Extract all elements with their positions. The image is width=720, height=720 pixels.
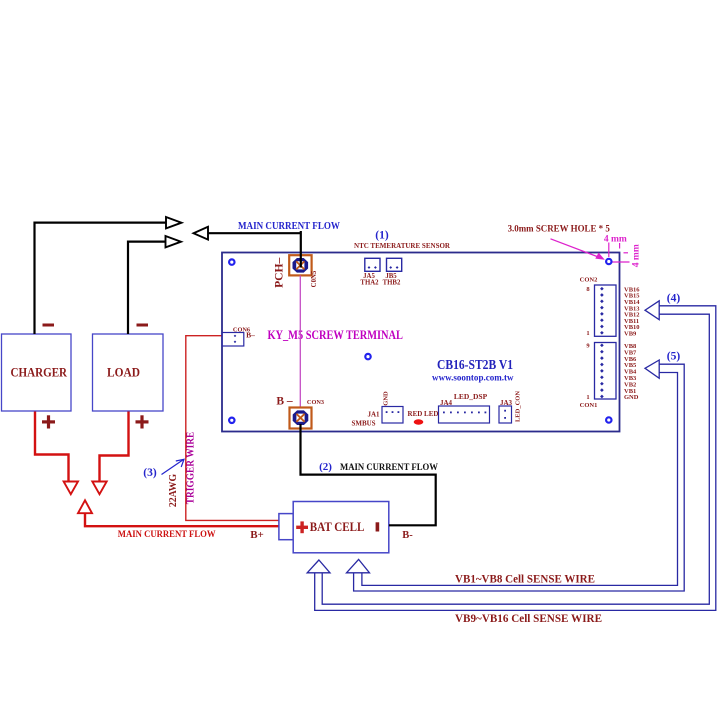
screw hole bottom-right — [606, 417, 611, 422]
connector JB5 — [387, 258, 402, 271]
svg-text:(4): (4) — [667, 293, 681, 305]
svg-text:GND: GND — [624, 394, 639, 401]
svg-text:KY_M5 SCREW TERMINAL: KY_M5 SCREW TERMINAL — [267, 327, 403, 342]
wire VB9-VB16 sense bus — [315, 306, 716, 611]
arrow load current into junction — [166, 236, 182, 247]
svg-text:22AWG: 22AWG — [168, 474, 179, 507]
svg-text:1: 1 — [586, 394, 589, 401]
wire junction to PCH- terminal — [208, 232, 301, 234]
connector JA4 — [439, 406, 490, 423]
connector JA1 — [382, 407, 403, 424]
connector JA3 — [499, 406, 512, 423]
svg-text:MAIN CURRENT FLOW: MAIN CURRENT FLOW — [340, 462, 439, 472]
svg-text:CON2: CON2 — [580, 277, 598, 284]
charger plus label — [42, 415, 55, 428]
charger minus label — [43, 324, 55, 327]
screw terminal CON5 — [289, 255, 311, 275]
svg-text:LED_CON: LED_CON — [515, 391, 522, 422]
svg-text:RED LED: RED LED — [408, 410, 439, 418]
arrow charger current down — [64, 482, 78, 495]
svg-text:C0N5: C0N5 — [311, 270, 318, 287]
wire charger positive — [35, 412, 69, 481]
charger box — [2, 334, 72, 411]
svg-text:BAT CELL: BAT CELL — [310, 520, 365, 534]
red LED — [414, 419, 424, 424]
load minus label — [137, 324, 149, 327]
connector CON6 — [222, 333, 244, 347]
svg-text:www.soontop.com.tw: www.soontop.com.tw — [432, 373, 514, 384]
svg-text:CHARGER: CHARGER — [11, 366, 68, 380]
svg-text:(1): (1) — [375, 230, 389, 242]
svg-text:JA3: JA3 — [500, 399, 513, 407]
svg-text:GND: GND — [383, 391, 390, 406]
svg-text:SMBUS: SMBUS — [351, 420, 375, 428]
screw hole middle — [365, 354, 370, 359]
svg-text:THA2: THA2 — [360, 279, 379, 286]
arrow cell sense left (to bat cell) — [307, 560, 330, 573]
svg-text:NTC TEMERATURE SENSOR: NTC TEMERATURE SENSOR — [354, 241, 451, 250]
arrow 4 — [645, 301, 659, 320]
wire battery negative to CON3 — [301, 424, 436, 525]
svg-text:B–: B– — [246, 331, 255, 340]
svg-text:3.0mm SCREW HOLE * 5: 3.0mm SCREW HOLE * 5 — [508, 224, 611, 234]
wire PCH- to B- terminal (violet) — [299, 276, 301, 408]
screw hole top-left — [229, 259, 234, 264]
dimension 4mm horizontal — [609, 243, 620, 258]
svg-text:4 mm: 4 mm — [632, 244, 642, 267]
svg-text:1: 1 — [586, 330, 589, 337]
arrow battery current up — [78, 500, 92, 513]
svg-text:MAIN CURRENT FLOW: MAIN CURRENT FLOW — [238, 221, 340, 232]
wire VB1-VB8 sense bus — [354, 364, 685, 591]
svg-text:CB16-ST2B V1: CB16-ST2B V1 — [437, 357, 513, 372]
dimension 4mm vertical — [613, 253, 630, 262]
load box — [93, 334, 164, 411]
svg-text:MAIN CURRENT FLOW: MAIN CURRENT FLOW — [118, 529, 217, 539]
svg-text:4 mm: 4 mm — [604, 235, 627, 245]
trigger wire — [186, 336, 279, 521]
svg-text:VB1~VB8 Cell SENSE WIRE: VB1~VB8 Cell SENSE WIRE — [455, 574, 595, 586]
arrow 5 — [645, 360, 659, 378]
svg-text:CON3: CON3 — [307, 399, 324, 406]
svg-text:VB9: VB9 — [624, 331, 637, 338]
pointer to screw hole — [551, 239, 605, 260]
wire charger negative — [35, 223, 167, 334]
svg-text:(5): (5) — [667, 351, 681, 363]
svg-text:CON1: CON1 — [580, 402, 598, 409]
svg-text:TRIGGER WIRE: TRIGGER WIRE — [186, 432, 197, 505]
wire load positive — [100, 412, 129, 481]
arrow load current down — [92, 482, 106, 495]
svg-text:THB2: THB2 — [383, 279, 401, 286]
wire load negative — [128, 242, 166, 334]
board CB16-ST2B outline — [222, 253, 620, 432]
svg-text:B –: B – — [276, 396, 293, 408]
connector CON1 — [595, 343, 617, 400]
svg-text:(2): (2) — [319, 461, 332, 473]
svg-text:JA1: JA1 — [367, 411, 380, 419]
svg-text:LOAD: LOAD — [107, 366, 140, 380]
svg-text:VB9~VB16 Cell SENSE WIRE: VB9~VB16 Cell SENSE WIRE — [455, 613, 602, 625]
arrow main current flow left — [194, 227, 209, 240]
svg-text:JA4: JA4 — [440, 399, 453, 407]
screw hole bottom-left — [229, 418, 234, 423]
screw terminal CON3 — [290, 408, 312, 429]
connector JA5 — [365, 258, 380, 271]
load plus label — [136, 415, 149, 428]
arrow cell sense right (to bat cell) — [347, 559, 370, 572]
arrow charger current into junction — [166, 217, 182, 228]
screw hole top-right — [606, 259, 611, 264]
svg-text:PCH–: PCH– — [272, 257, 286, 288]
wire main current flow to B+ — [85, 514, 279, 526]
svg-text:LED_DSP: LED_DSP — [454, 392, 488, 401]
battery BAT CELL — [279, 502, 389, 553]
svg-text:B-: B- — [402, 530, 413, 541]
arrow 3 pointer — [162, 459, 185, 474]
svg-text:B+: B+ — [250, 529, 264, 541]
connector CON2 — [595, 285, 617, 336]
wire into CON5 — [300, 231, 302, 268]
svg-text:(3): (3) — [143, 467, 157, 479]
